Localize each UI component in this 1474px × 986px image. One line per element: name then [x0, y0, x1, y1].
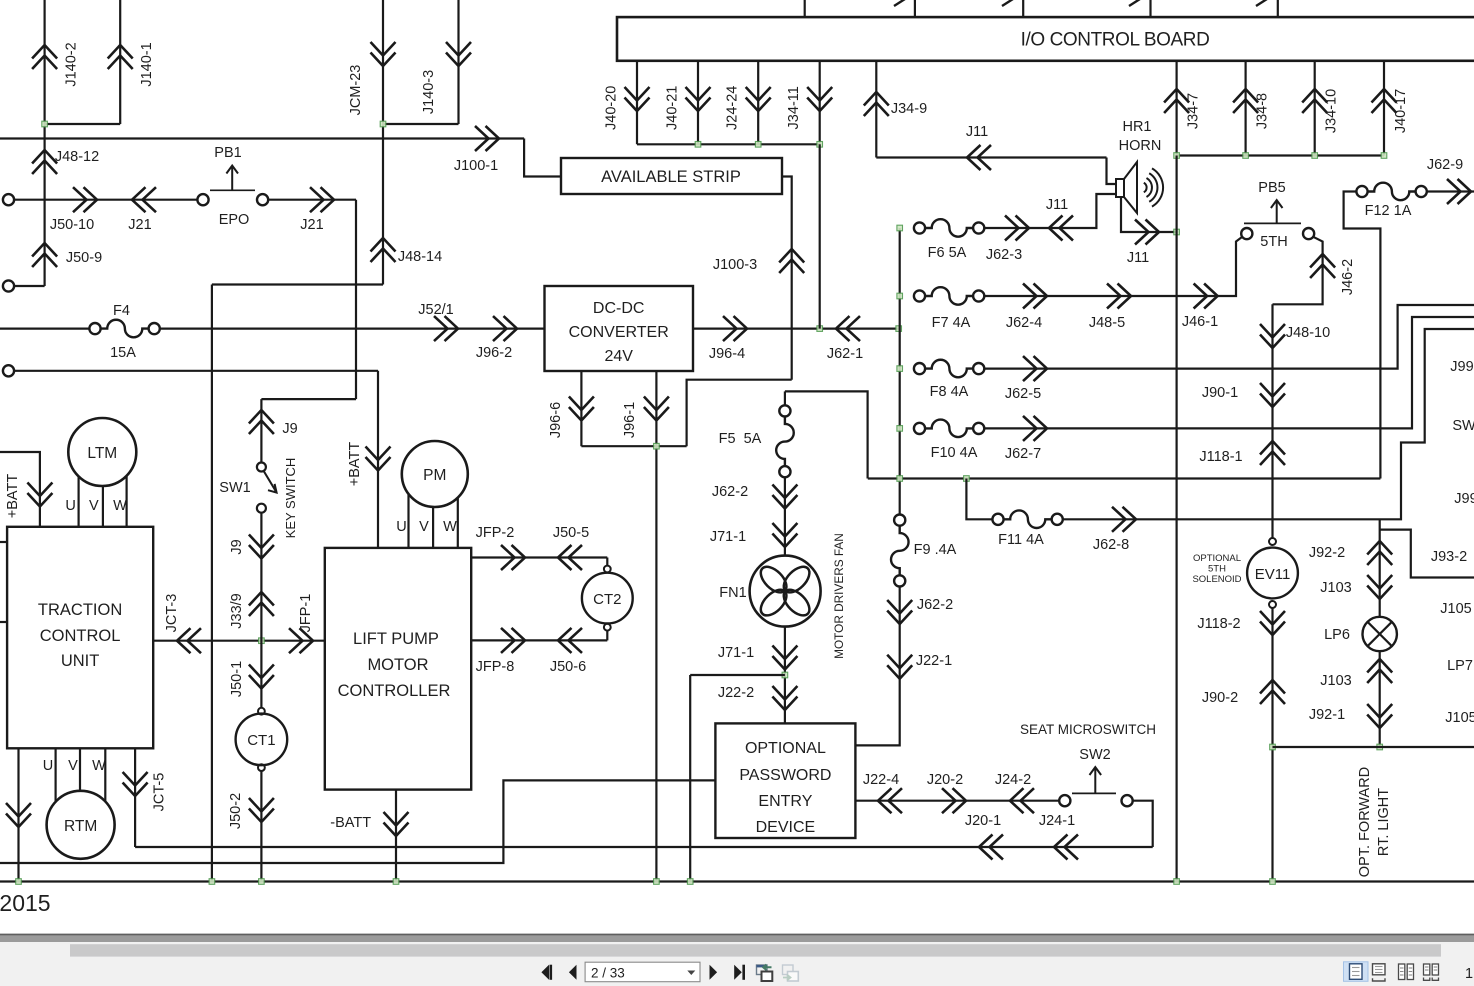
svg-text:J24-2: J24-2 — [995, 772, 1031, 788]
node junction fan branch — [782, 672, 788, 678]
node junction bottom bus x18.5 — [16, 879, 22, 885]
fuse F8 4A — [914, 363, 925, 374]
wire above board 4 — [1149, 0, 1151, 17]
connector chevron J24-24 — [746, 87, 771, 111]
wire RTM W — [104, 748, 106, 801]
svg-text:J92-1: J92-1 — [1309, 707, 1345, 723]
connector chevron J96-6 — [569, 397, 594, 421]
node junction JCM-23 tie — [380, 121, 386, 127]
connector chevron J22-1 — [887, 655, 912, 679]
wire F7 row to 5TH switch — [984, 237, 1242, 296]
node junction J34-7 tie — [1174, 153, 1180, 159]
wire +BATT lift pump vertical — [377, 371, 379, 548]
wire PB5 right to J46-2 — [1273, 237, 1323, 304]
key switch SW1 top contact — [257, 463, 266, 472]
svg-text:J50-10: J50-10 — [50, 217, 94, 233]
svg-text:J62-4: J62-4 — [1006, 315, 1042, 331]
connector chevron J103 lower — [1367, 659, 1392, 683]
svg-text:SOLENOID: SOLENOID — [1192, 574, 1241, 585]
svg-text:J24-24: J24-24 — [725, 86, 741, 130]
pushbutton PB5 contact right — [1303, 228, 1314, 239]
svg-text:F4: F4 — [113, 303, 130, 319]
svg-text:JFP-1: JFP-1 — [298, 594, 314, 633]
connector chevron J118-2 — [1260, 611, 1285, 635]
wire RTM V — [79, 748, 81, 791]
svg-text:DC-DC: DC-DC — [593, 300, 645, 317]
svg-text:J105: J105 — [1440, 601, 1471, 617]
node junction horn to bus — [1174, 229, 1180, 235]
svg-text:J71-1: J71-1 — [718, 645, 754, 661]
svg-text:J140-2: J140-2 — [64, 42, 80, 86]
connector chevron J62-9 — [1447, 179, 1471, 204]
connector chevron +BATT lift pump — [366, 447, 391, 471]
svg-text:DEVICE: DEVICE — [756, 819, 816, 836]
wire RTM U — [54, 748, 56, 802]
svg-text:J48-10: J48-10 — [1286, 325, 1330, 341]
svg-text:CONVERTER: CONVERTER — [569, 324, 669, 341]
wire J21 to key switch horizontal — [261, 398, 356, 400]
connector chevron J34-8 — [1233, 89, 1258, 113]
wire key switch top — [260, 399, 262, 462]
connector chevron J100-1 — [475, 126, 499, 151]
solenoid EV11 bottom circle — [1269, 601, 1276, 608]
wire F5 to fan — [784, 477, 786, 555]
wire SW2 return — [1133, 801, 1153, 847]
connector chevron J50-9 — [32, 243, 57, 267]
svg-text:J118-2: J118-2 — [1197, 616, 1240, 632]
connector chevron +BATT traction — [27, 483, 52, 507]
node junction F12 row bus — [897, 476, 903, 482]
svg-text:LIFT PUMP: LIFT PUMP — [353, 630, 439, 648]
svg-text:J50-1: J50-1 — [229, 661, 245, 697]
wire J40-17 vertical — [1383, 61, 1385, 156]
wire bottom bus — [0, 880, 1474, 882]
node junction bottom bus x396 — [393, 879, 399, 885]
fuse F12 1A — [1356, 186, 1367, 197]
svg-text:OPTIONAL: OPTIONAL — [745, 740, 826, 757]
svg-text:J21: J21 — [128, 217, 151, 233]
svg-text:J99: J99 — [1450, 359, 1473, 375]
dc-dc converter box — [545, 286, 694, 371]
svg-text:J48-5: J48-5 — [1089, 315, 1125, 331]
wire JFP-8 row — [471, 639, 607, 641]
lamp LP6 — [1363, 617, 1397, 651]
wire J50-9 row — [14, 285, 44, 287]
wire J140-1 vertical — [119, 0, 121, 124]
svg-text:FN1: FN1 — [719, 585, 746, 601]
wire F10 row SW — [984, 317, 1474, 428]
wire J96-1 output long vertical — [655, 371, 657, 882]
wire JFP-2 row — [471, 556, 607, 558]
svg-text:J33/9: J33/9 — [229, 593, 245, 628]
svg-text:5TH: 5TH — [1208, 564, 1226, 575]
svg-text:SW1: SW1 — [219, 480, 250, 496]
connector chevron JFP-1 — [289, 628, 313, 653]
svg-text:2 / 33: 2 / 33 — [591, 965, 625, 980]
svg-text:J92-2: J92-2 — [1309, 545, 1345, 561]
fuse F6 5A — [914, 222, 925, 233]
svg-text:J46-1: J46-1 — [1182, 314, 1218, 330]
svg-text:J50-6: J50-6 — [550, 659, 586, 675]
wire J34-11 column — [819, 144, 821, 328]
svg-text:V: V — [68, 758, 78, 774]
connector chevron J21 left — [132, 187, 156, 212]
wire fan branch left — [690, 674, 785, 676]
svg-text:F8 4A: F8 4A — [930, 384, 969, 400]
svg-text:F12 1A: F12 1A — [1365, 203, 1412, 219]
node junction bottom bus x211.9 — [209, 879, 215, 885]
svg-text:HR1: HR1 — [1122, 119, 1151, 135]
chevron fragment above board 2 — [894, 0, 905, 6]
traction control unit box — [7, 527, 153, 749]
optional password entry device box — [715, 723, 855, 838]
seat microswitch SW2 actuator arrow — [1090, 767, 1102, 793]
connector chevron J11 mid — [1049, 216, 1073, 241]
wire J34-11 vertical — [819, 61, 821, 145]
fuse F9 .4A — [894, 515, 905, 526]
wire password left feed — [0, 780, 715, 863]
connector chevron J90-1 — [1260, 383, 1285, 407]
wire TCU left stub lower — [0, 621, 7, 623]
svg-text:J22-1: J22-1 — [916, 653, 952, 669]
connector chevron JCT-3 — [177, 628, 201, 653]
wire F6 row to horn — [984, 194, 1116, 228]
svg-text:LTM: LTM — [87, 445, 117, 462]
node junction bottom bus x690.2 — [687, 879, 693, 885]
wire F11 row to right — [1063, 329, 1474, 519]
node junction J140-2 tie — [42, 121, 48, 127]
wire connector tie bus y155 — [1177, 154, 1384, 156]
wire J140-3 vertical — [457, 0, 459, 124]
connector chevron J71-1 lower — [772, 646, 797, 670]
contactor CT2 circle — [582, 573, 633, 624]
connector chevron J52/1 — [434, 316, 458, 341]
svg-text:V: V — [419, 519, 429, 535]
svg-text:1: 1 — [1465, 966, 1473, 982]
contactor CT1 bottom circle — [258, 764, 265, 771]
svg-text:AVAILABLE STRIP: AVAILABLE STRIP — [601, 168, 741, 186]
svg-text:J62-8: J62-8 — [1093, 537, 1129, 553]
connector chevron J22-4 — [878, 788, 902, 813]
connector chevron JCM-23 — [371, 42, 396, 66]
connector chevron J90-2 — [1260, 680, 1285, 704]
fuse F4 15A — [89, 323, 100, 334]
svg-text:2015: 2015 — [0, 890, 51, 916]
svg-text:LP6: LP6 — [1324, 627, 1350, 643]
svg-text:U: U — [396, 519, 406, 535]
wire J40-21 vertical — [697, 61, 699, 145]
connector chevron J96-2 — [493, 316, 517, 341]
svg-text:PASSWORD: PASSWORD — [739, 767, 831, 784]
wire F4 row to DC-DC — [160, 328, 545, 330]
svg-text:J46-2: J46-2 — [1340, 259, 1356, 295]
wire lamp branch top corner — [1380, 530, 1474, 578]
connector chevron JCT-5 — [123, 772, 148, 796]
svg-text:CONTROL: CONTROL — [40, 627, 121, 645]
svg-text:LP7: LP7 — [1447, 658, 1473, 674]
svg-text:J103: J103 — [1320, 580, 1351, 596]
svg-text:J9: J9 — [229, 539, 245, 554]
terminal circle J50-10 — [3, 194, 14, 205]
page number field — [585, 962, 700, 982]
connector chevron J24-1 — [1054, 835, 1078, 860]
wire J34-8 vertical — [1244, 61, 1246, 156]
svg-text:J62-1: J62-1 — [827, 346, 863, 362]
svg-text:J40-21: J40-21 — [665, 86, 681, 130]
contactor CT1 circle — [236, 714, 288, 766]
wire JCM-23 vertical — [382, 0, 384, 285]
connector chevron J62-3 — [1005, 216, 1029, 241]
key switch SW1 blade — [264, 471, 277, 492]
connector chevron J9 lower — [249, 535, 274, 559]
node junction F12 row F11 — [964, 476, 970, 482]
svg-text:JCM-23: JCM-23 — [348, 65, 364, 116]
connector chevron J140-1 — [108, 45, 133, 69]
connector chevron J96-1 — [644, 397, 669, 421]
node junction J96-1 tie — [654, 443, 660, 449]
svg-text:J100-1: J100-1 — [454, 158, 498, 174]
svg-text:J103: J103 — [1320, 673, 1351, 689]
svg-text:J40-17: J40-17 — [1393, 89, 1409, 133]
svg-text:F11 4A: F11 4A — [998, 532, 1044, 548]
svg-text:24V: 24V — [604, 348, 633, 365]
svg-text:J100-3: J100-3 — [713, 257, 757, 273]
wire F8 row J99 — [984, 305, 1474, 369]
svg-text:PB1: PB1 — [214, 145, 241, 161]
wire J21 corner down — [355, 200, 357, 399]
connector chevron J24-2 — [1010, 788, 1034, 813]
terminal circle J50-9 — [3, 280, 14, 291]
wire F12 output — [1427, 190, 1474, 192]
pushbutton PB1 EPO contact right — [257, 194, 268, 205]
wire F5 feed corner — [785, 391, 868, 478]
connector chevron J46-2 — [1310, 254, 1335, 278]
svg-text:J62-2: J62-2 — [917, 597, 953, 613]
wire J96 outputs tie — [581, 445, 686, 447]
connector chevron J62-2 f9 — [887, 600, 912, 624]
fuse F5 5A — [779, 405, 790, 416]
wire J140-2 vertical — [43, 0, 45, 286]
wire +BATT lift pump row — [14, 370, 378, 372]
wire right main bus vertical — [1175, 156, 1177, 882]
svg-text:J11: J11 — [1127, 250, 1149, 266]
wire LTM +BATT corner — [0, 452, 40, 527]
svg-text:J140-1: J140-1 — [139, 42, 155, 86]
wire above board 2 — [914, 0, 916, 17]
connector chevron J46-1 — [1194, 284, 1218, 309]
wire J48-14 corner horizontal — [212, 283, 383, 285]
connector chevron J20-1 — [979, 835, 1003, 860]
svg-text:J34-8: J34-8 — [1255, 93, 1271, 129]
fan FN1 circle — [750, 556, 821, 627]
wire J34-10 vertical — [1314, 61, 1316, 156]
pushbutton PB5 bar — [1244, 222, 1301, 224]
wire key switch to CT1 — [260, 513, 262, 708]
svg-text:SW2: SW2 — [1079, 747, 1110, 763]
wire F4 row left — [0, 328, 89, 330]
svg-text:J21: J21 — [300, 217, 323, 233]
wire F11 feed corner — [966, 479, 992, 520]
connector chevron J9 upper — [249, 410, 274, 434]
svg-text:J20-2: J20-2 — [927, 772, 963, 788]
svg-text:-BATT: -BATT — [330, 815, 371, 831]
wire CT2 top corner — [606, 558, 608, 566]
wire J62-1 row — [693, 328, 899, 330]
wire J22-4 row — [855, 800, 1059, 802]
pushbutton PB1 EPO contact left — [197, 194, 208, 205]
fan FN1 petals — [779, 562, 814, 597]
wire EV11 column lower — [1271, 608, 1273, 882]
wire above board 1 — [804, 0, 806, 17]
node junction J34-11 tie — [817, 142, 823, 148]
svg-text:RT. LIGHT: RT. LIGHT — [1376, 788, 1392, 856]
svg-text:J62-2: J62-2 — [712, 484, 748, 500]
node junction bottom bus x1176.6 — [1174, 879, 1180, 885]
connector chevron J100-3 — [779, 249, 804, 273]
svg-text:J62-5: J62-5 — [1005, 386, 1041, 402]
solenoid EV11 top circle — [1269, 538, 1276, 545]
connector chevron J103 upper — [1367, 575, 1392, 599]
svg-text:W: W — [113, 498, 127, 514]
svg-text:SW: SW — [1452, 418, 1474, 434]
contactor CT2 bottom circle — [604, 624, 611, 631]
wire fan branch vertical — [689, 675, 691, 882]
svg-text:F5 5A: F5 5A — [719, 431, 762, 447]
wire long vertical left bus — [211, 285, 213, 882]
node junction key switch column — [259, 638, 265, 644]
connector chevron J48-5 — [1107, 284, 1131, 309]
wire above board 5 — [1277, 0, 1279, 17]
wire lamp branch vertical lower — [1379, 651, 1381, 747]
svg-text:U: U — [43, 758, 53, 774]
connector chevron J11 bottom — [1135, 220, 1159, 245]
svg-text:J50-5: J50-5 — [553, 525, 589, 541]
wire EV11 column upper — [1271, 304, 1273, 538]
svg-text:J48-14: J48-14 — [398, 249, 442, 265]
wire J100-1 corner to available strip — [524, 139, 561, 177]
svg-text:J11: J11 — [966, 124, 988, 140]
connector chevron J20-2 — [942, 788, 966, 813]
svg-text:HORN: HORN — [1119, 138, 1162, 154]
next view icon (disabled) — [783, 965, 799, 981]
svg-text:J34-7: J34-7 — [1186, 93, 1202, 129]
wire seat switch return row — [135, 846, 1153, 848]
svg-text:V: V — [89, 498, 99, 514]
lift pump motor controller box — [325, 548, 471, 790]
wire above board 3 — [1022, 0, 1024, 17]
svg-text:J90-2: J90-2 — [1202, 690, 1238, 706]
I/O control board box — [617, 17, 1474, 61]
contactor CT1 top circle — [258, 708, 265, 715]
node junction fuse bus F6 — [897, 225, 903, 231]
wire J24-24 vertical — [757, 61, 759, 145]
svg-text:J24-1: J24-1 — [1039, 813, 1075, 829]
wire LTM W — [125, 476, 127, 527]
svg-text:PB5: PB5 — [1258, 180, 1285, 196]
fuse F7 4A — [914, 290, 925, 301]
connector chevron J50-1 — [249, 665, 274, 689]
svg-text:MOTOR: MOTOR — [367, 656, 428, 674]
wire fuse bus vertical — [899, 228, 901, 515]
wire J34-9 vertical — [875, 61, 877, 158]
wire connector tie bus y144 — [637, 143, 820, 145]
svg-text:J93-2: J93-2 — [1431, 549, 1467, 565]
layout icon facing pages — [1399, 964, 1414, 980]
svg-text:F9 .4A: F9 .4A — [914, 542, 957, 558]
connector chevron J34-11 — [807, 87, 832, 111]
svg-text:J71-1: J71-1 — [710, 529, 746, 545]
wire J34-7 vertical — [1175, 61, 1177, 156]
wire PM W — [457, 498, 459, 548]
connector chevron J62-7 — [1023, 416, 1047, 441]
svg-text:J20-1: J20-1 — [965, 813, 1001, 829]
connector chevron J92-2 — [1367, 541, 1392, 565]
svg-text:CT2: CT2 — [593, 591, 621, 608]
chevron fragment above board 4 — [1129, 0, 1140, 6]
seat microswitch SW2 bar — [1072, 792, 1116, 794]
node junction fuse bus F10 — [897, 426, 903, 432]
pushbutton PB1 EPO actuator arrow — [226, 166, 238, 191]
nav first page button — [541, 965, 552, 980]
wire PM U — [407, 494, 409, 548]
connector chevron JFP-8 — [501, 628, 525, 653]
connector chevron J48-12 — [32, 150, 57, 174]
connector chevron J33/9 — [249, 592, 274, 616]
connector chevron J50-10 — [73, 187, 97, 212]
svg-text:RTM: RTM — [64, 818, 97, 835]
connector chevron J40-17 — [1372, 89, 1397, 113]
svg-text:J34-9: J34-9 — [891, 101, 927, 117]
motor LTM circle — [68, 418, 136, 486]
chevron fragment above board 5 — [1256, 0, 1267, 6]
connector chevron J62-8 — [1112, 507, 1136, 532]
connector chevron J40-20 — [625, 87, 650, 111]
nav last page button — [734, 965, 745, 980]
node junction J24-24 tie — [755, 142, 761, 148]
svg-text:TRACTION: TRACTION — [38, 601, 122, 619]
connector chevron J92-1 — [1367, 704, 1392, 728]
svg-text:OPTIONAL: OPTIONAL — [1193, 553, 1241, 564]
svg-text:15A: 15A — [110, 345, 136, 361]
connector chevron JFP-2 — [501, 545, 525, 570]
svg-text:U: U — [65, 498, 75, 514]
connector chevron J62-2 fan — [772, 485, 797, 509]
svg-text:5TH: 5TH — [1260, 234, 1287, 250]
svg-text:J22-4: J22-4 — [863, 772, 899, 788]
connector chevron J48-14 — [371, 238, 396, 262]
svg-text:J96-1: J96-1 — [622, 402, 638, 438]
svg-text:MOTOR DRIVERS FAN: MOTOR DRIVERS FAN — [832, 533, 846, 659]
svg-text:J34-10: J34-10 — [1324, 89, 1340, 133]
svg-text:J62-9: J62-9 — [1427, 157, 1463, 173]
nav next page button — [710, 965, 718, 980]
svg-text:J48-12: J48-12 — [55, 149, 99, 165]
svg-text:OPT. FORWARD: OPT. FORWARD — [1357, 767, 1373, 877]
connector chevron J40-21 — [686, 87, 711, 111]
node junction J34-11 column — [817, 326, 823, 332]
connector chevron J50-5 — [558, 545, 582, 570]
svg-text:J40-20: J40-20 — [604, 86, 620, 130]
svg-text:JCT-5: JCT-5 — [152, 773, 168, 812]
svg-text:J9: J9 — [282, 421, 297, 437]
svg-text:J52/1: J52/1 — [418, 302, 453, 318]
wire TCU bottom left vertical — [17, 748, 19, 881]
svg-text:J34-11: J34-11 — [786, 86, 802, 129]
svg-text:J96-4: J96-4 — [709, 346, 745, 362]
wire F12 feed vertical — [1344, 192, 1381, 479]
wire available strip right drop — [782, 177, 792, 380]
node junction bottom bus x656.4 — [654, 879, 660, 885]
